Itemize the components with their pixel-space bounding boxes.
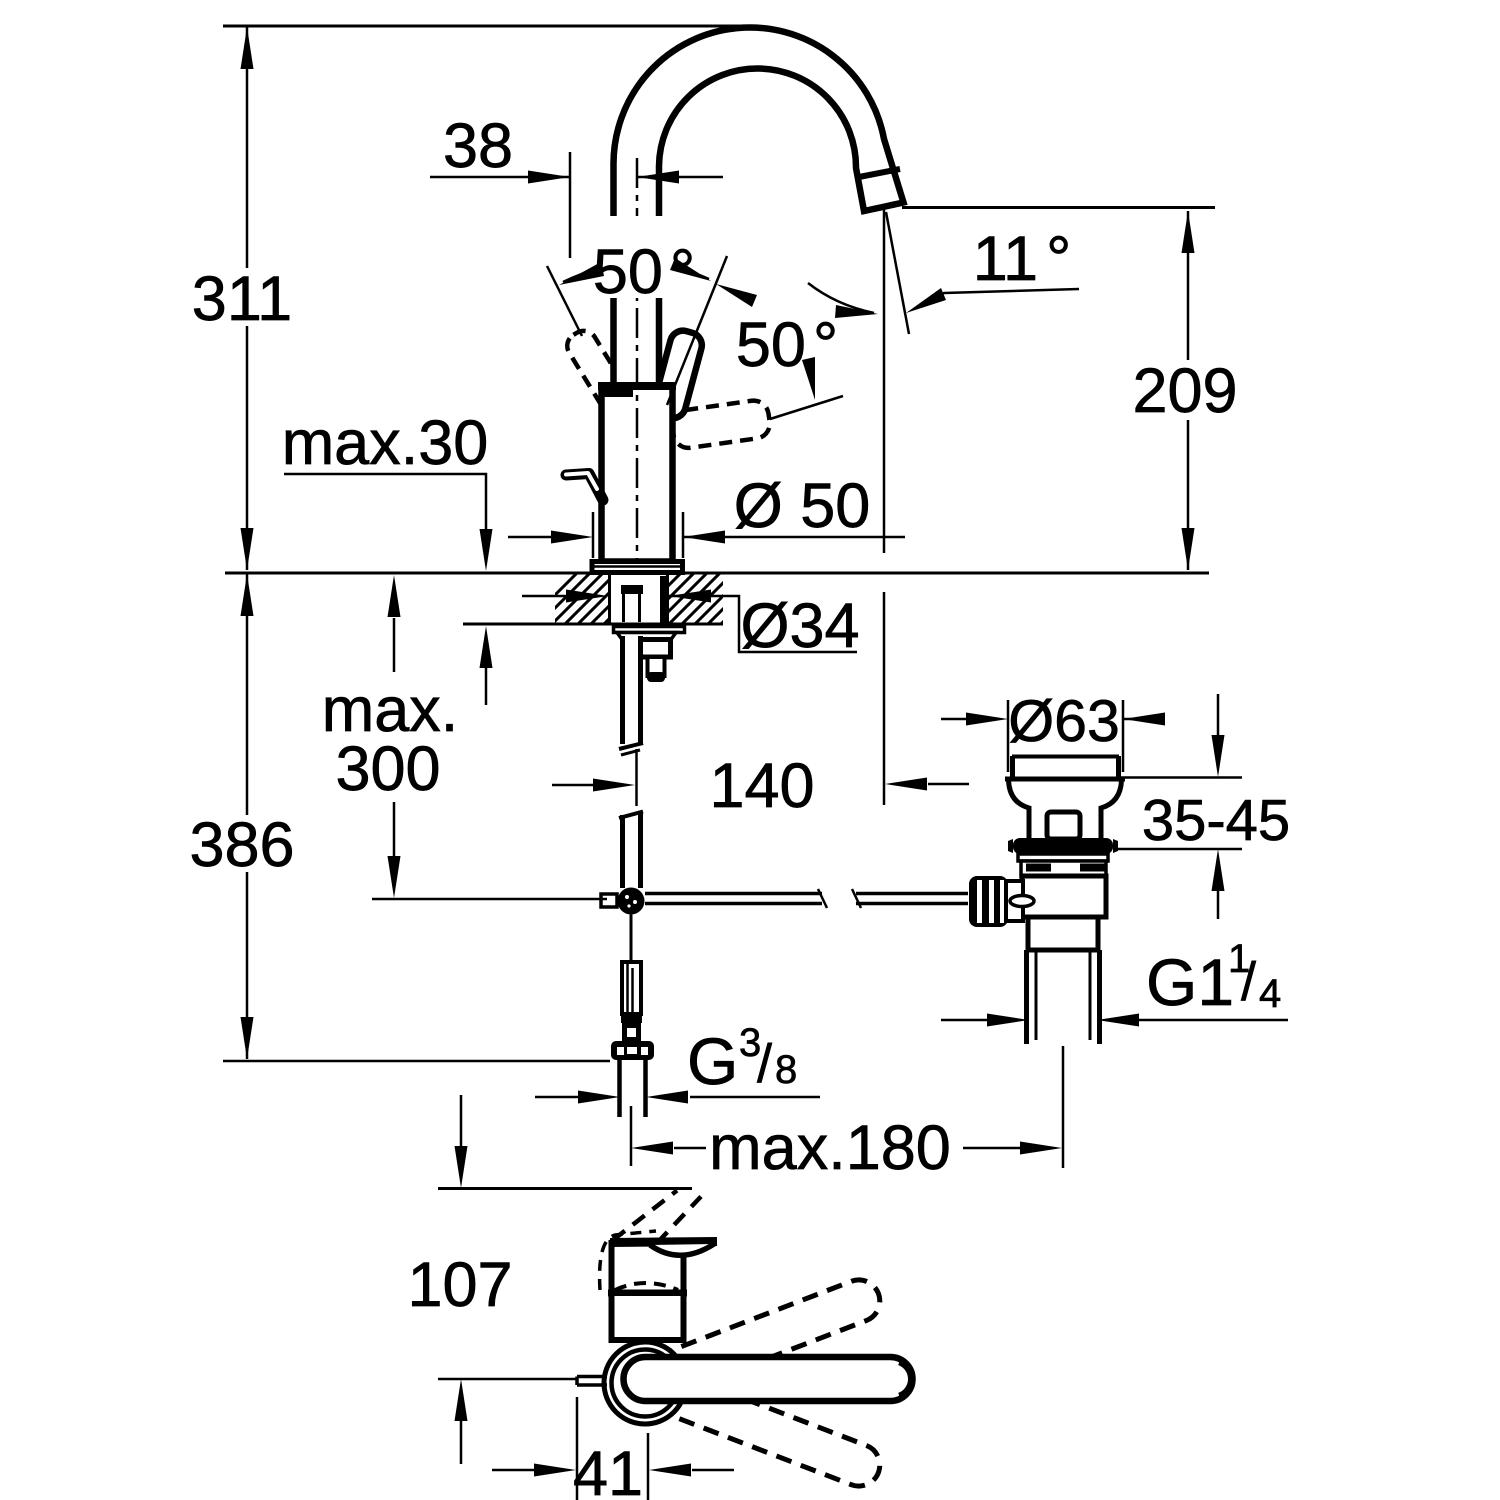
angle 11 arc (808, 283, 874, 313)
svg-text:max.180: max.180 (709, 1113, 951, 1183)
arrow 209 up (1182, 211, 1195, 253)
clamp plate (1006, 881, 1023, 921)
text mask 311 (203, 268, 283, 326)
arrow 38 left (637, 171, 679, 184)
dim 41 extension lines (577, 1397, 648, 1500)
arrow G114 right (987, 1014, 1029, 1027)
svg-text:50°: 50° (736, 310, 838, 380)
slot band (1021, 861, 1106, 876)
arrow dia50 left (683, 531, 725, 544)
dashed spout top view (613, 1191, 677, 1241)
base flange (592, 562, 683, 573)
topview axis reference line (438, 1378, 576, 1381)
dim max30 lower arrow line (485, 668, 488, 705)
arrow G38 right (578, 1091, 620, 1104)
threaded rod (648, 657, 665, 676)
clamp knurled nut (969, 876, 1008, 927)
hex nut (636, 640, 671, 658)
arrow G38 left (646, 1091, 688, 1104)
svg-text:35-45: 35-45 (1142, 788, 1290, 853)
barrel (1022, 876, 1106, 917)
dim dia34 lines (522, 596, 857, 652)
cartridge black bar (604, 388, 633, 397)
axis line left lever (547, 266, 582, 336)
arrow 41 right (534, 1464, 576, 1477)
dim dia63 extension lines (1008, 700, 1123, 772)
dim 107 line (460, 1095, 463, 1464)
arrow max180 right (1020, 1142, 1062, 1155)
dim 209 line (1187, 211, 1190, 570)
axis line right lever (770, 396, 843, 419)
axis line solid lever (667, 256, 727, 405)
arrow dia50 right (551, 531, 593, 544)
lever pad top bar (610, 1242, 717, 1243)
bell taper (1009, 780, 1030, 839)
vertical pop-up rod (630, 915, 633, 963)
dim 38 line left (430, 176, 570, 179)
drain top tube (1013, 756, 1119, 779)
supply pipe stub (617, 1060, 622, 1117)
dim 3545 line (1217, 694, 1220, 919)
text mask 107 (412, 1259, 508, 1309)
text mask 209 (1136, 364, 1234, 416)
svg-text:G: G (687, 1024, 738, 1098)
deck top line (225, 572, 1209, 575)
arrow 50b right (802, 357, 815, 400)
shank black bar (660, 576, 668, 624)
svg-text:11°: 11° (973, 224, 1072, 294)
escutcheon rect (612, 1243, 684, 1293)
hatching (520, 566, 792, 630)
line 11deg slanted (886, 212, 909, 334)
shank walls (608, 573, 611, 624)
dim 38 extension line (569, 152, 572, 258)
dim max180 right extension (1062, 1046, 1065, 1168)
svg-text:Ø34: Ø34 (740, 591, 859, 661)
rod break ticks (818, 889, 827, 908)
svg-text:209: 209 (1132, 356, 1237, 426)
horizontal pop-up rod (645, 894, 822, 904)
text mask 50a (592, 216, 700, 298)
dim 3545 bottom reference (1116, 848, 1242, 851)
arrow 140 left (885, 778, 927, 791)
text mask 300 (335, 745, 442, 795)
svg-text:300: 300 (335, 734, 440, 804)
supply hose middle segment (619, 812, 643, 819)
svg-text:max.30: max.30 (282, 408, 489, 478)
arrow 311 down (241, 528, 254, 570)
arrow dia34 right (566, 590, 608, 603)
tailpipe (1027, 950, 1100, 1044)
arrow dia63 right (966, 713, 1008, 726)
aerator seam (857, 169, 901, 178)
dim dia50 extension lines (593, 512, 683, 558)
svg-text:311: 311 (192, 264, 292, 334)
arrow 209 down (1182, 528, 1195, 570)
arrow 50a right (670, 258, 711, 281)
top view body (612, 1293, 684, 1340)
dim 38 line right (637, 176, 723, 179)
outlet vertical extension line (883, 209, 886, 805)
dim 311 line (246, 27, 249, 570)
o-ring seal black (1013, 838, 1113, 854)
dim 386 line (246, 574, 249, 1059)
arrow 107 up (455, 1379, 468, 1421)
dim 41 lines (492, 1469, 734, 1472)
text mask 386 (195, 815, 292, 872)
dim 386 bottom reference (223, 1060, 610, 1063)
base circles (604, 1342, 686, 1424)
washer trapezoid (617, 633, 676, 640)
G3/8 flange nut (611, 1041, 654, 1060)
ball joint (618, 888, 645, 915)
dim 209 top reference line (902, 206, 1215, 209)
dim 311 top reference line (223, 25, 744, 28)
rod guide block (621, 585, 643, 594)
svg-text:386: 386 (189, 810, 294, 880)
text mask dia63 (1012, 694, 1118, 746)
dim dia63 lines (941, 718, 1162, 721)
pop-up knob (566, 474, 603, 501)
svg-text:107: 107 (407, 1250, 512, 1320)
svg-text:41: 41 (573, 1439, 643, 1500)
topview upper reference line (438, 1187, 692, 1190)
arrow max30 down (480, 529, 493, 571)
lower rod piece (622, 962, 641, 1014)
center line (636, 158, 639, 560)
lever inner cap arc (899, 1363, 910, 1395)
arrow 41 left (649, 1464, 691, 1477)
svg-text:38: 38 (443, 111, 513, 181)
arrow max300 down (388, 856, 401, 898)
svg-text:8: 8 (775, 1048, 797, 1092)
rod left stub (601, 894, 617, 907)
washer (614, 627, 685, 633)
lower section (1028, 917, 1098, 950)
dim max180 left extension (630, 1106, 633, 1166)
center knob (1047, 812, 1080, 839)
dim max300 bottom reference (372, 898, 607, 901)
angle 50 arc first (563, 263, 709, 282)
arrow 386 up (241, 574, 254, 616)
pop-up pin top view (577, 1377, 607, 1386)
lever handle left dashed (rotated position) (562, 326, 632, 414)
svg-text:/: / (757, 1034, 772, 1094)
dim max180 lines (674, 1147, 1020, 1150)
lever pad crescent (650, 1244, 714, 1255)
body top thick edge (598, 382, 676, 390)
dim 140 lines (552, 784, 969, 785)
text mask max (318, 688, 462, 738)
arrow 11 right (906, 288, 946, 313)
escutcheon hidden dashes (600, 1231, 656, 1290)
top view dashed lever down-right (637, 1363, 885, 1492)
arrow 38 right (528, 171, 570, 184)
lever handle right dashed (rotated position) (670, 399, 771, 450)
arrow 3545 down (1212, 735, 1225, 777)
arrow max30 up (480, 626, 493, 668)
escutcheon bottom thick edge (608, 1290, 687, 1297)
faucet body (602, 386, 673, 562)
svg-text:140: 140 (709, 751, 814, 821)
dim G38 lines (535, 1096, 820, 1099)
top view solid lever (624, 1357, 913, 1401)
dim 3545 top reference (1121, 776, 1242, 779)
dim dia50 lines (508, 536, 905, 539)
arrow 140 right (593, 779, 635, 792)
dim max300 line (393, 618, 396, 856)
arrow 386 down (241, 1017, 254, 1059)
svg-text:Ø 50: Ø 50 (734, 471, 871, 541)
arrow G114 left (1097, 1014, 1139, 1027)
upper band (1018, 854, 1108, 861)
arrow 3545 up (1212, 849, 1225, 891)
arrow max300 up (388, 575, 401, 617)
svg-text:G1: G1 (1146, 945, 1234, 1019)
svg-text:Ø63: Ø63 (1008, 688, 1120, 754)
dim G114 lines (941, 1019, 1288, 1022)
lever handle solid (651, 328, 705, 421)
top view dashed lever up-right (637, 1274, 885, 1403)
arrow dia34 left (669, 590, 711, 603)
arrow 11 left (835, 305, 878, 318)
arrow 50a left (559, 262, 604, 285)
spout gooseneck (613, 28, 903, 392)
angle 11 leader (938, 289, 1079, 296)
arrow 107 down (455, 1146, 468, 1188)
arrow max180 left (631, 1142, 673, 1155)
arrow 311 up (241, 27, 254, 69)
clamp cross pin (1010, 896, 1034, 907)
arrow dia63 left (1123, 713, 1165, 726)
supply hose upper segment (625, 636, 638, 744)
hose center extension (635, 749, 638, 806)
deck bottom line (463, 623, 723, 626)
svg-text:/: / (1241, 952, 1256, 1012)
dim max30 leader (284, 474, 486, 530)
svg-text:4: 4 (1259, 972, 1281, 1016)
arrow 50b left (716, 284, 757, 307)
